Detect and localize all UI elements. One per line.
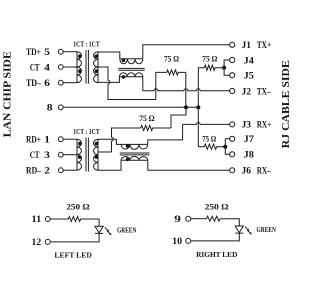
wire pin1 to T2: [63, 138, 77, 140]
transformer T1 primary line: [76, 52, 78, 83]
svg-text:1CT : 1CT: 1CT : 1CT: [73, 127, 100, 136]
LED1 light arrows: [105, 227, 110, 233]
resistor R4 75ohm: [198, 144, 225, 149]
T1 secondary dot top: [95, 54, 99, 58]
T2 secondary dot bottom: [95, 155, 99, 159]
transformer T2 primary winding: [77, 139, 81, 170]
T1 secondary dot bottom: [95, 69, 99, 73]
svg-text:2: 2: [44, 166, 50, 177]
wire R1 to rail junction: [185, 72, 187, 107]
junction J7/J8 dot: [223, 145, 227, 149]
wire LED1 to pin12: [50, 233, 99, 242]
pin 3 terminal: [58, 152, 63, 157]
transformer T2 secondary winding: [94, 139, 98, 170]
svg-text:RX–: RX–: [257, 166, 271, 177]
choke CM1 bottom winding: [119, 73, 142, 77]
choke CM2 core: [120, 153, 150, 155]
J5 terminal: [230, 73, 235, 78]
svg-text:12: 12: [32, 237, 42, 248]
svg-text:75 Ω: 75 Ω: [202, 133, 216, 143]
LED2 arrowheads: [247, 229, 252, 235]
wire choke CM1 to J1: [143, 45, 230, 59]
junction rail dot B: [196, 105, 200, 109]
pin 2 terminal: [58, 168, 63, 173]
T2 secondary dot top: [95, 142, 99, 146]
svg-text:J3: J3: [242, 120, 252, 131]
pin 12 terminal: [45, 239, 50, 244]
wire choke CM2 to J6: [148, 160, 230, 170]
pin 10 terminal: [186, 238, 191, 243]
T2 primary dot top: [78, 142, 82, 146]
svg-text:J6: J6: [242, 166, 252, 177]
pin 11 terminal: [45, 217, 50, 222]
transformer T1 core: [86, 50, 88, 84]
pin 6 terminal: [58, 80, 63, 85]
transformer T2 secondary line: [97, 139, 99, 170]
wire R3 left to T2 center tap with hop: [98, 128, 141, 152]
wire resistor to LED2: [220, 219, 239, 226]
pin 4 terminal: [58, 65, 63, 70]
svg-text:LAN CHIP SIDE: LAN CHIP SIDE: [3, 51, 14, 137]
wire J5 stub: [224, 68, 230, 76]
resistor 250ohm left: [68, 217, 80, 222]
svg-text:1CT : 1CT: 1CT : 1CT: [73, 39, 100, 48]
svg-text:J2: J2: [242, 86, 252, 97]
svg-text:TD+: TD+: [26, 47, 41, 58]
wire resistor to LED1: [81, 219, 99, 226]
wire T1 secondary bottom to choke CM1: [98, 77, 119, 83]
choke CM2 bottom winding: [121, 156, 148, 160]
svg-text:TX–: TX–: [257, 86, 271, 97]
svg-text:75 Ω: 75 Ω: [139, 113, 155, 123]
T1 primary dot bottom: [78, 69, 82, 73]
wire choke CM1 to J2 with hops: [143, 77, 230, 91]
wire choke CM2 to J3 with hop: [148, 122, 230, 144]
resistor R3 75ohm: [141, 125, 171, 130]
wire J4 stub: [224, 60, 230, 68]
svg-text:RD+: RD+: [26, 135, 41, 146]
svg-text:J1: J1: [242, 40, 252, 51]
svg-text:J7: J7: [244, 134, 254, 145]
pin 5 terminal: [58, 49, 63, 54]
J4 terminal: [230, 57, 235, 62]
wire pin9 to resistor: [191, 218, 207, 220]
choke CM1 core: [118, 68, 144, 70]
J8 terminal: [230, 152, 235, 157]
wire LED2 to pin10: [191, 233, 240, 241]
J6 terminal: [230, 168, 235, 173]
svg-text:RX+: RX+: [257, 120, 272, 131]
wire J8 stub: [225, 147, 229, 155]
choke CM2 top winding: [121, 144, 148, 149]
svg-text:J5: J5: [244, 71, 254, 82]
svg-text:9: 9: [174, 214, 181, 225]
svg-text:CT: CT: [30, 62, 40, 73]
transformer T1 primary winding: [77, 52, 81, 83]
transformer T2 primary line: [76, 139, 78, 170]
T2 primary dot bottom: [78, 155, 82, 159]
svg-text:75 Ω: 75 Ω: [164, 53, 179, 63]
J3 terminal: [230, 122, 235, 127]
svg-text:J4: J4: [244, 55, 254, 66]
T1 primary dot top: [78, 54, 82, 58]
transformer T1 secondary line: [97, 52, 99, 83]
CM2 top dot: [126, 144, 130, 148]
CM1 bottom dot: [122, 75, 126, 79]
LED1 arrowheads: [107, 229, 112, 235]
wire R3 staircase to rail junction: [171, 107, 186, 128]
J1 terminal: [230, 42, 235, 47]
wire pin4 to T1: [63, 66, 77, 68]
svg-text:6: 6: [44, 78, 50, 89]
svg-text:5: 5: [44, 47, 50, 58]
junction rail dot A: [184, 105, 188, 109]
svg-text:TD–: TD–: [26, 78, 41, 89]
wire pin11 to resistor: [50, 218, 68, 220]
svg-text:250 Ω: 250 Ω: [205, 201, 229, 211]
wire T1 center tap to resistor R1: [98, 67, 156, 100]
svg-text:CT: CT: [30, 150, 40, 161]
choke CM1 top winding: [120, 59, 143, 64]
svg-text:GREEN: GREEN: [117, 226, 137, 234]
pin 8 terminal: [58, 105, 63, 110]
wire pin2 to T2: [63, 169, 77, 171]
svg-text:RIGHT LED: RIGHT LED: [196, 250, 238, 259]
wire rail down to resistor R4: [197, 107, 199, 146]
transformer T2 core: [86, 138, 88, 172]
wire pin8 common rail: [63, 106, 198, 108]
wire pin3 to T2: [63, 154, 77, 156]
CM1 top dot: [122, 59, 126, 63]
pin 9 terminal: [186, 216, 191, 221]
resistor R2 75ohm: [204, 65, 224, 70]
svg-text:LEFT LED: LEFT LED: [54, 251, 92, 260]
wire rail to resistor R2: [198, 68, 204, 108]
svg-text:TX+: TX+: [257, 40, 272, 51]
svg-text:10: 10: [172, 236, 182, 247]
CM2 bottom dot: [126, 158, 130, 162]
wire T1 secondary top to choke CM1: [98, 52, 120, 59]
wire T2 secondary top to choke CM2: [98, 139, 121, 144]
svg-text:75 Ω: 75 Ω: [202, 53, 217, 63]
LED1 green: [95, 226, 103, 233]
svg-text:8: 8: [47, 103, 53, 114]
wire T2 secondary bottom to choke CM2: [98, 160, 121, 170]
svg-text:11: 11: [32, 214, 42, 225]
svg-text:RD–: RD–: [26, 166, 41, 177]
svg-text:RJ CABLE SIDE: RJ CABLE SIDE: [281, 60, 292, 148]
svg-text:1: 1: [44, 135, 50, 146]
junction J4/J5 dot: [222, 66, 226, 70]
svg-text:3: 3: [44, 150, 50, 161]
wire pin6 to T1: [63, 82, 77, 84]
svg-text:GREEN: GREEN: [257, 226, 277, 234]
LED2 green: [235, 226, 243, 233]
resistor 250ohm right: [207, 216, 221, 221]
svg-text:250 Ω: 250 Ω: [66, 201, 89, 211]
transformer T1 secondary winding: [94, 52, 98, 83]
svg-text:4: 4: [44, 62, 50, 73]
J7 terminal: [230, 136, 235, 141]
wire J7 stub: [225, 139, 229, 147]
resistor R1 75ohm: [156, 70, 186, 75]
LED2 light arrows: [245, 227, 250, 233]
svg-text:J8: J8: [244, 150, 254, 161]
J2 terminal: [230, 88, 235, 93]
pin 1 terminal: [58, 137, 63, 142]
wire pin5 to T1: [63, 51, 77, 53]
